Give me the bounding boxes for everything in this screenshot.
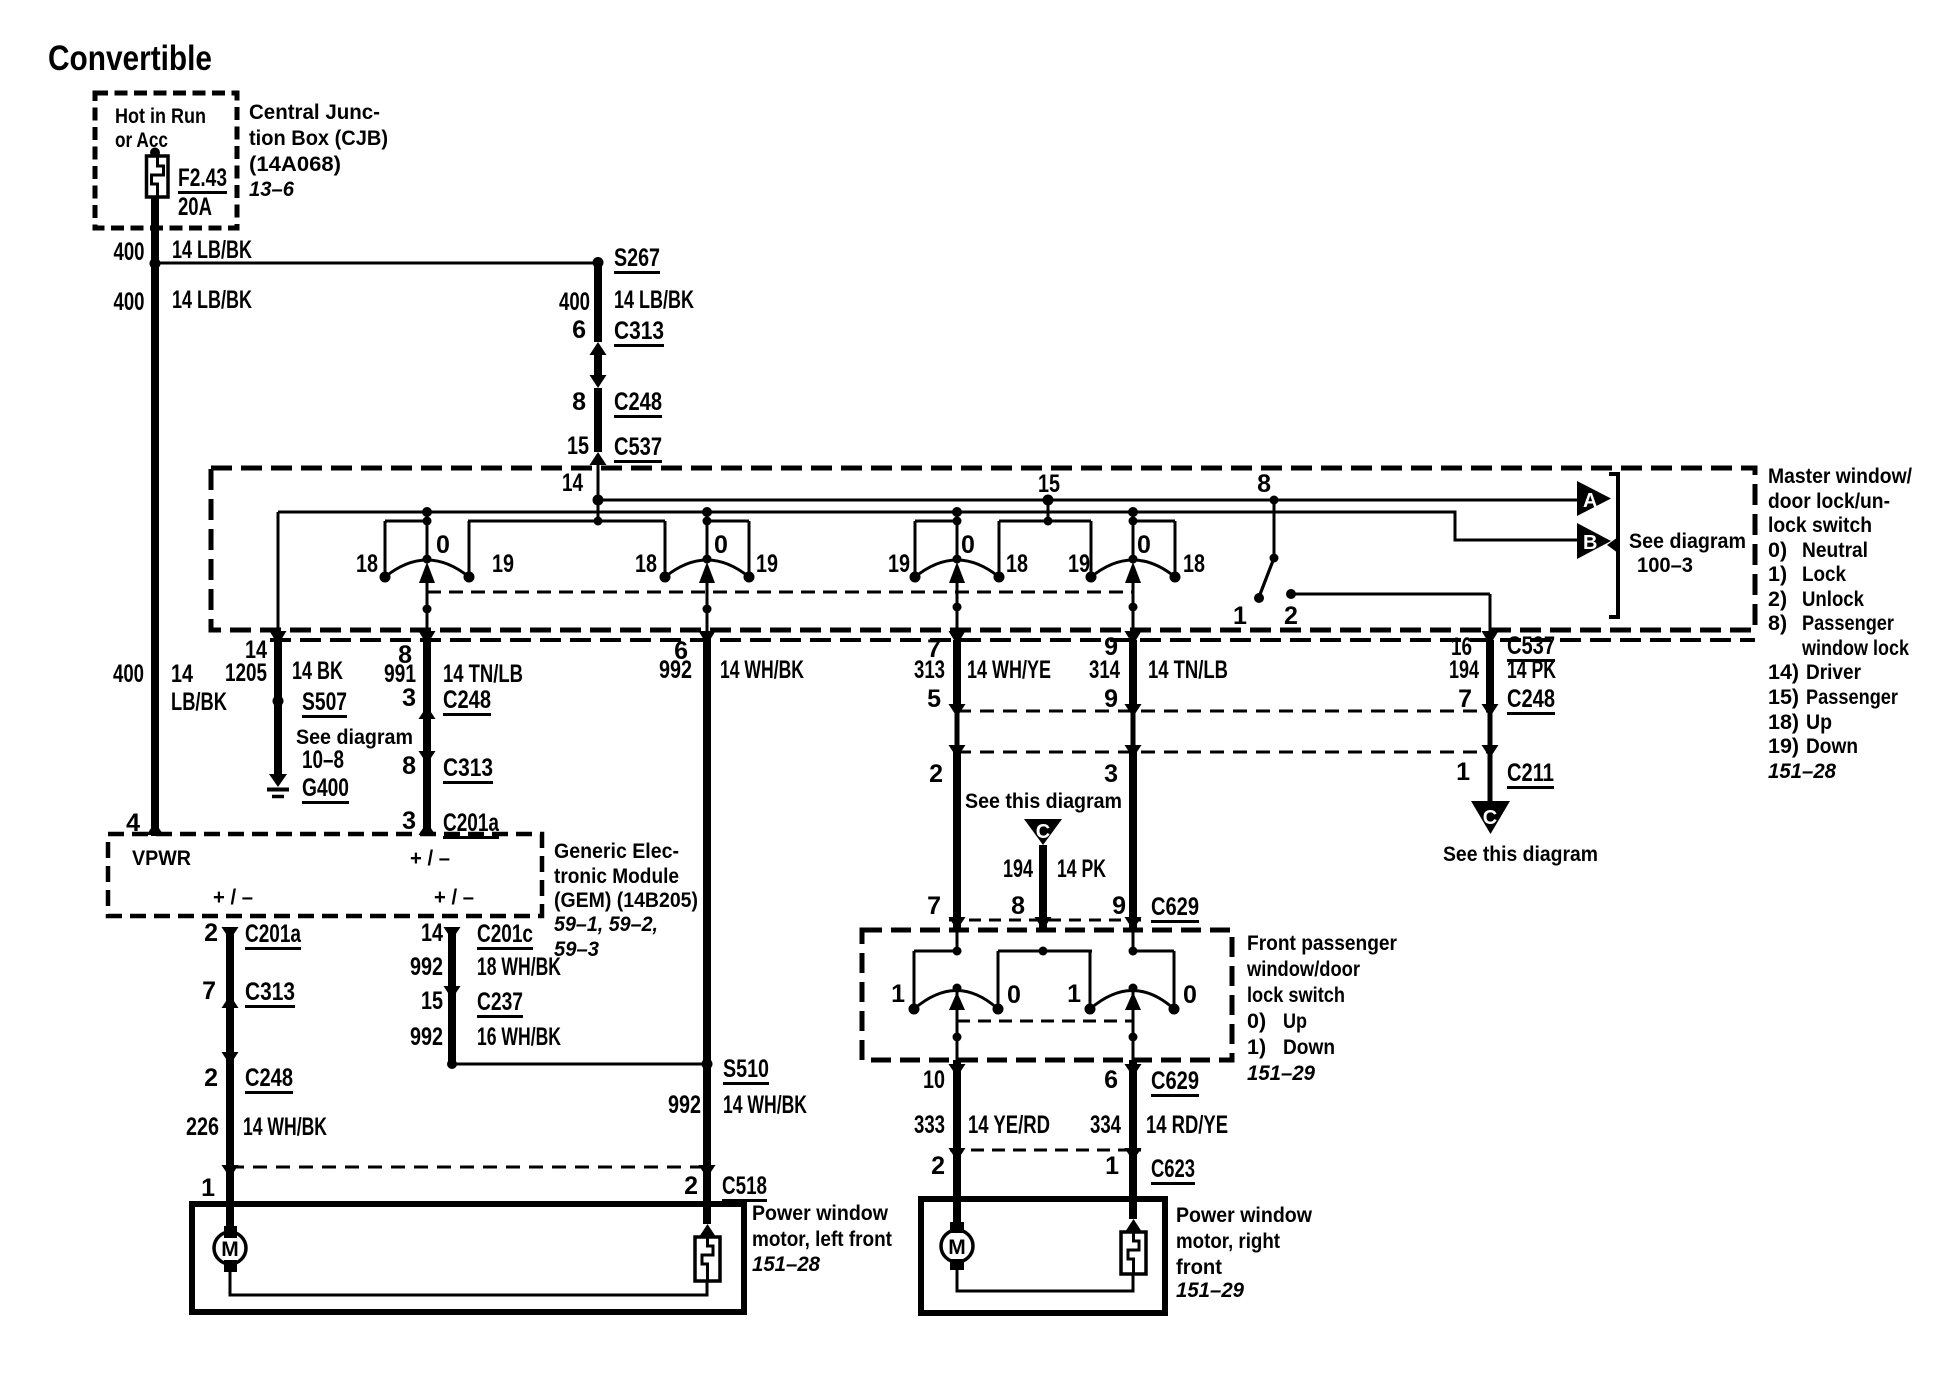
- svg-text:992: 992: [659, 656, 692, 684]
- svg-text:(14A068): (14A068): [249, 152, 341, 176]
- splice S267: [593, 257, 604, 268]
- power window motor left front box: [192, 1204, 744, 1312]
- svg-text:0: 0: [436, 531, 450, 559]
- motor M right: [950, 1222, 964, 1233]
- svg-text:14 LB/BK: 14 LB/BK: [172, 286, 252, 314]
- svg-text:6: 6: [572, 316, 586, 344]
- wire 334 14 RD/YE to right motor: [1129, 1060, 1137, 1219]
- connector C313 pin 7: [222, 995, 239, 1008]
- rocker switch SW2 driver window (18 up / 0 / 19 down): [706, 512, 709, 559]
- svg-text:C: C: [1483, 807, 1497, 829]
- svg-text:LB/BK: LB/BK: [171, 688, 227, 716]
- inline boundary dashed line lower: [957, 751, 1490, 754]
- svg-text:14 LB/BK: 14 LB/BK: [614, 286, 694, 314]
- wire jumper to S267: [155, 262, 598, 265]
- svg-text:C211: C211: [1507, 759, 1554, 787]
- svg-text:8): 8): [1768, 611, 1787, 635]
- connector C248 pin 8: [590, 375, 607, 388]
- connector C518 pin 2: [699, 1165, 716, 1178]
- svg-text:14 TN/LB: 14 TN/LB: [1148, 656, 1228, 684]
- svg-text:313: 313: [914, 656, 945, 684]
- svg-text:8: 8: [1257, 470, 1271, 498]
- connector arrow exiting master box at x=278: [270, 631, 287, 645]
- svg-text:9: 9: [1112, 892, 1126, 920]
- svg-text:Master window/: Master window/: [1768, 464, 1912, 488]
- svg-text:S267: S267: [614, 244, 660, 272]
- svg-text:14 PK: 14 PK: [1507, 656, 1556, 684]
- svg-text:C201c: C201c: [477, 920, 533, 948]
- pin 15 tick to switch feed: [1047, 500, 1050, 521]
- wire 992 GEM pin 14 to S510: [448, 931, 456, 1063]
- wire inside right motor box: [957, 1270, 1133, 1291]
- arrow A to diagram 100-3: [1577, 481, 1611, 516]
- wire 991 14 TN/LB to GEM pin 3: [423, 640, 431, 836]
- svg-text:Unlock: Unlock: [1802, 587, 1864, 611]
- rocker switch P1 passenger window (1 down / 0 up): [956, 931, 959, 951]
- svg-text:14 WH/YE: 14 WH/YE: [967, 656, 1051, 684]
- svg-text:18: 18: [635, 550, 657, 578]
- connector C248 pin 2: [222, 1052, 239, 1065]
- connector C623 boundary: [950, 1149, 1141, 1152]
- wire between C248 and C537: [594, 388, 602, 452]
- wire 333 14 YE/RD to right motor: [953, 1060, 961, 1222]
- svg-text:5: 5: [927, 685, 941, 713]
- svg-text:Driver: Driver: [1806, 660, 1862, 684]
- svg-text:Up: Up: [1806, 710, 1832, 734]
- svg-text:window lock: window lock: [1801, 636, 1909, 660]
- svg-text:1): 1): [1247, 1035, 1266, 1059]
- svg-text:C313: C313: [614, 317, 664, 345]
- svg-text:1: 1: [1067, 980, 1081, 1008]
- svg-text:2: 2: [204, 919, 218, 947]
- svg-text:14 TN/LB: 14 TN/LB: [443, 660, 523, 688]
- Generic Electronic Module (GEM) dashed box: [108, 834, 542, 916]
- svg-text:100–3: 100–3: [1637, 553, 1693, 577]
- svg-text:400: 400: [559, 288, 590, 316]
- svg-text:2: 2: [204, 1064, 218, 1092]
- svg-text:Passenger: Passenger: [1802, 611, 1895, 635]
- node splice at fuse feed: [150, 258, 161, 269]
- svg-text:151–29: 151–29: [1247, 1061, 1315, 1085]
- svg-text:0): 0): [1768, 538, 1787, 562]
- svg-text:400: 400: [114, 288, 145, 316]
- rocker switch P2 passenger window (1 down / 0 up): [1132, 931, 1135, 951]
- svg-text:8: 8: [572, 388, 586, 416]
- inner dashed link line of switches: [427, 591, 1134, 594]
- svg-text:See this diagram: See this diagram: [1443, 842, 1598, 866]
- svg-text:Lock: Lock: [1802, 562, 1846, 586]
- power window motor right front box: [921, 1199, 1165, 1313]
- svg-text:14 RD/YE: 14 RD/YE: [1146, 1111, 1228, 1139]
- svg-text:18): 18): [1768, 710, 1799, 734]
- svg-text:226: 226: [186, 1113, 219, 1141]
- svg-text:992: 992: [410, 953, 443, 981]
- svg-text:334: 334: [1090, 1111, 1121, 1139]
- svg-text:See diagram: See diagram: [1629, 529, 1746, 553]
- svg-text:19: 19: [492, 550, 514, 578]
- svg-text:C313: C313: [245, 978, 295, 1006]
- svg-text:3: 3: [1104, 760, 1118, 788]
- svg-text:or Acc: or Acc: [115, 128, 168, 152]
- svg-text:194: 194: [1449, 656, 1479, 684]
- svg-text:19: 19: [756, 550, 778, 578]
- svg-text:2): 2): [1768, 587, 1787, 611]
- svg-text:(GEM) (14B205): (GEM) (14B205): [554, 888, 698, 912]
- svg-text:14: 14: [421, 919, 443, 947]
- svg-text:Power window: Power window: [752, 1201, 888, 1225]
- circuit breaker in right motor: [1125, 1219, 1142, 1232]
- svg-text:See this diagram: See this diagram: [965, 789, 1122, 813]
- svg-text:59–3: 59–3: [554, 937, 599, 961]
- svg-text:7: 7: [202, 977, 216, 1005]
- svg-text:S510: S510: [723, 1055, 769, 1083]
- svg-text:59–1, 59–2,: 59–1, 59–2,: [554, 912, 658, 936]
- svg-text:14 WH/BK: 14 WH/BK: [243, 1113, 327, 1141]
- svg-text:16 WH/BK: 16 WH/BK: [477, 1023, 561, 1051]
- svg-text:151–29: 151–29: [1176, 1278, 1244, 1302]
- wire 400 14 LB/BK down to GEM pin 4: [151, 263, 159, 836]
- svg-text:C518: C518: [722, 1172, 767, 1200]
- svg-text:400: 400: [114, 238, 145, 266]
- svg-text:Convertible: Convertible: [48, 39, 212, 78]
- svg-text:15: 15: [567, 432, 589, 460]
- arrow B to diagram 100-3: [1577, 523, 1611, 559]
- svg-text:14): 14): [1768, 660, 1799, 684]
- connector arrow exiting master box at x=707: [699, 631, 716, 645]
- svg-text:14 YE/RD: 14 YE/RD: [968, 1111, 1050, 1139]
- rocker switch SW1 driver window (18 up / 0 / 19 down): [426, 512, 429, 559]
- connector C201a pin 3: [419, 822, 436, 835]
- svg-text:+ / –: + / –: [434, 885, 474, 909]
- svg-text:C623: C623: [1151, 1155, 1195, 1183]
- window lock switch pin 8 (1 / 2): [1273, 500, 1276, 557]
- svg-text:194: 194: [1003, 855, 1033, 883]
- svg-text:Up: Up: [1283, 1009, 1307, 1033]
- door boundary dashed line: [270, 638, 1755, 642]
- svg-text:0: 0: [961, 531, 975, 559]
- svg-text:333: 333: [914, 1111, 945, 1139]
- svg-text:992: 992: [410, 1023, 443, 1051]
- svg-text:lock switch: lock switch: [1247, 983, 1345, 1007]
- svg-text:Down: Down: [1806, 734, 1858, 758]
- svg-text:F2.43: F2.43: [178, 164, 227, 192]
- connector C201c pin 14: [444, 927, 461, 940]
- svg-text:Passenger: Passenger: [1806, 685, 1899, 709]
- svg-text:G400: G400: [302, 774, 349, 802]
- svg-text:19): 19): [1768, 734, 1799, 758]
- connector arrow exiting master box at x=957: [949, 631, 966, 645]
- connector C537 pin 15: [590, 452, 607, 465]
- svg-text:151–28: 151–28: [752, 1252, 820, 1276]
- svg-text:front: front: [1176, 1255, 1222, 1279]
- svg-text:400: 400: [113, 660, 144, 688]
- wire 314 14 TN/LB to front passenger switch pin 9: [1129, 640, 1137, 711]
- wire 313 14 WH/YE to front passenger switch pin 7: [953, 640, 961, 711]
- svg-text:+ / –: + / –: [213, 885, 253, 909]
- svg-text:1: 1: [201, 1174, 215, 1202]
- svg-text:0: 0: [1183, 981, 1197, 1009]
- inline boundary dashed line upper: [957, 710, 1490, 713]
- wire feed sw1-19 / sw2-18: [468, 520, 665, 523]
- feed bar from pin 8 to switch contacts: [998, 950, 1092, 953]
- svg-text:S507: S507: [302, 688, 347, 716]
- svg-text:3: 3: [402, 684, 416, 712]
- door boundary dashed line left: [230, 1166, 707, 1169]
- svg-text:C248: C248: [614, 388, 662, 416]
- svg-text:9: 9: [1104, 685, 1118, 713]
- svg-text:2: 2: [684, 1172, 698, 1200]
- svg-text:Generic Elec-: Generic Elec-: [554, 839, 679, 863]
- svg-text:window/door: window/door: [1246, 957, 1360, 981]
- svg-text:tronic Module: tronic Module: [554, 864, 679, 888]
- svg-text:C248: C248: [1507, 685, 1555, 713]
- fuse F2.43 20A: [150, 148, 160, 158]
- svg-text:C248: C248: [245, 1064, 293, 1092]
- front passenger window/door lock switch dashed box: [862, 930, 1232, 1060]
- svg-text:0: 0: [1007, 981, 1021, 1009]
- svg-text:A: A: [1583, 490, 1597, 512]
- svg-text:Neutral: Neutral: [1802, 538, 1868, 562]
- svg-text:14 BK: 14 BK: [292, 657, 343, 685]
- svg-text:15): 15): [1768, 685, 1799, 709]
- svg-text:7: 7: [927, 892, 941, 920]
- svg-text:10: 10: [923, 1066, 945, 1094]
- svg-text:0: 0: [1137, 531, 1151, 559]
- svg-text:18: 18: [356, 550, 378, 578]
- svg-text:C237: C237: [477, 988, 523, 1016]
- svg-text:C: C: [1036, 821, 1050, 843]
- wire pin14 1205 14 BK: [277, 512, 280, 631]
- svg-text:1): 1): [1768, 562, 1787, 586]
- svg-text:2: 2: [929, 760, 943, 788]
- svg-text:C248: C248: [443, 686, 491, 714]
- svg-text:C629: C629: [1151, 1067, 1199, 1095]
- svg-text:18 WH/BK: 18 WH/BK: [477, 953, 561, 981]
- svg-text:8: 8: [402, 752, 416, 780]
- rocker switch SW4 passenger window (19 down / 0 / 18 up): [1132, 512, 1135, 559]
- svg-text:13–6: 13–6: [249, 177, 295, 201]
- svg-text:14: 14: [562, 469, 583, 497]
- svg-text:18: 18: [1183, 550, 1205, 578]
- wire 226 14 WH/BK GEM pin 2 to left motor: [226, 931, 234, 1226]
- off-page arrow C (right): [1471, 801, 1510, 834]
- svg-text:C313: C313: [443, 754, 493, 782]
- connector C237 pin 15: [444, 986, 461, 999]
- svg-text:314: 314: [1089, 656, 1120, 684]
- svg-text:1205: 1205: [225, 659, 267, 687]
- svg-text:C629: C629: [1151, 893, 1199, 921]
- connector C313 pin 8: [419, 751, 436, 764]
- svg-text:+ / –: + / –: [410, 846, 450, 870]
- svg-text:1: 1: [1105, 1152, 1119, 1180]
- svg-text:0): 0): [1247, 1009, 1266, 1033]
- svg-text:C537: C537: [614, 433, 662, 461]
- wire branch to splice S510: [447, 1059, 457, 1069]
- wire lock switch contact 2 to pin 16: [1291, 593, 1490, 596]
- brace for A/B arrows: [1609, 474, 1618, 617]
- off-page arrow C feeding pin 8: [1024, 819, 1062, 845]
- Central Junction Box (CJB) dashed box: [95, 93, 237, 228]
- wire feed sw3-18 / sw4-19: [999, 520, 1091, 523]
- svg-text:Central Junc-: Central Junc-: [249, 100, 380, 124]
- svg-text:14: 14: [171, 660, 193, 688]
- wire 400 14 LB/BK from S267: [594, 262, 602, 342]
- svg-text:19: 19: [888, 550, 910, 578]
- connector arrow exiting master box at x=1490: [1482, 631, 1499, 645]
- svg-text:motor, right: motor, right: [1176, 1229, 1280, 1253]
- svg-text:C201a: C201a: [245, 920, 302, 948]
- svg-text:motor, left front: motor, left front: [752, 1227, 892, 1251]
- inner dashed link line of passenger switches: [957, 1020, 1133, 1023]
- master window/door lock/unlock switch dashed box: [211, 468, 1755, 630]
- svg-text:VPWR: VPWR: [132, 846, 191, 870]
- svg-text:6: 6: [1104, 1066, 1118, 1094]
- svg-text:151–28: 151–28: [1768, 759, 1836, 783]
- svg-text:1: 1: [891, 980, 905, 1008]
- svg-text:14 WH/BK: 14 WH/BK: [720, 656, 804, 684]
- svg-text:10–8: 10–8: [302, 746, 344, 774]
- circuit breaker in left motor: [699, 1224, 716, 1237]
- svg-text:Down: Down: [1283, 1035, 1335, 1059]
- connector arrow exiting master box at x=427: [419, 631, 436, 645]
- connector arrow exiting master box at x=1133: [1125, 631, 1142, 645]
- connector C629 pins 10 6: [949, 1064, 966, 1077]
- svg-text:M: M: [221, 1238, 239, 1261]
- svg-text:Hot in Run: Hot in Run: [115, 104, 206, 128]
- svg-text:14 PK: 14 PK: [1057, 855, 1106, 883]
- svg-text:7: 7: [1458, 685, 1472, 713]
- svg-text:tion Box (CJB): tion Box (CJB): [249, 126, 388, 150]
- feed bus from pin 14: [598, 499, 1578, 502]
- ground G400: [269, 774, 287, 787]
- svg-text:20A: 20A: [178, 193, 212, 221]
- wire into master switch pin 14: [597, 462, 600, 521]
- wire 992 14 WH/BK trunk to left motor: [703, 640, 711, 1224]
- svg-text:1: 1: [1233, 602, 1247, 630]
- svg-text:14 WH/BK: 14 WH/BK: [723, 1091, 807, 1119]
- motor M left: [224, 1226, 237, 1238]
- svg-text:19: 19: [1068, 550, 1090, 578]
- svg-text:Front passenger: Front passenger: [1247, 931, 1398, 955]
- svg-text:3: 3: [402, 807, 416, 835]
- svg-text:Power window: Power window: [1176, 1203, 1312, 1227]
- svg-text:2: 2: [1284, 602, 1298, 630]
- connector C201a pin 2: [222, 927, 239, 940]
- splice S510: [702, 1059, 713, 1070]
- svg-text:1: 1: [1456, 758, 1470, 786]
- wire 400 14 LB/BK from fuse: [151, 196, 159, 263]
- wire 194 14 PK into C629 pin 8: [1039, 845, 1047, 931]
- svg-text:lock switch: lock switch: [1768, 513, 1872, 537]
- wire 194 14 PK pin 16 to C arrow: [1486, 640, 1494, 711]
- wire stub between C313 and C248: [594, 355, 602, 375]
- rocker switch SW3 passenger window (19 down / 0 / 18 up): [956, 512, 959, 559]
- svg-text:15: 15: [1038, 470, 1060, 498]
- svg-text:0: 0: [714, 531, 728, 559]
- svg-text:door lock/un-: door lock/un-: [1768, 489, 1890, 513]
- svg-text:M: M: [948, 1236, 966, 1259]
- splice S507: [273, 696, 284, 707]
- svg-text:992: 992: [668, 1091, 701, 1119]
- svg-text:15: 15: [421, 987, 443, 1015]
- svg-text:18: 18: [1006, 550, 1028, 578]
- svg-text:B: B: [1583, 532, 1597, 554]
- wire inside left motor box: [230, 1272, 707, 1295]
- svg-text:14 LB/BK: 14 LB/BK: [172, 236, 252, 264]
- ground bus to pin 14/1205: [278, 512, 1578, 540]
- svg-text:2: 2: [931, 1152, 945, 1180]
- svg-text:8: 8: [1011, 892, 1025, 920]
- connector C248 pin 3: [419, 706, 436, 719]
